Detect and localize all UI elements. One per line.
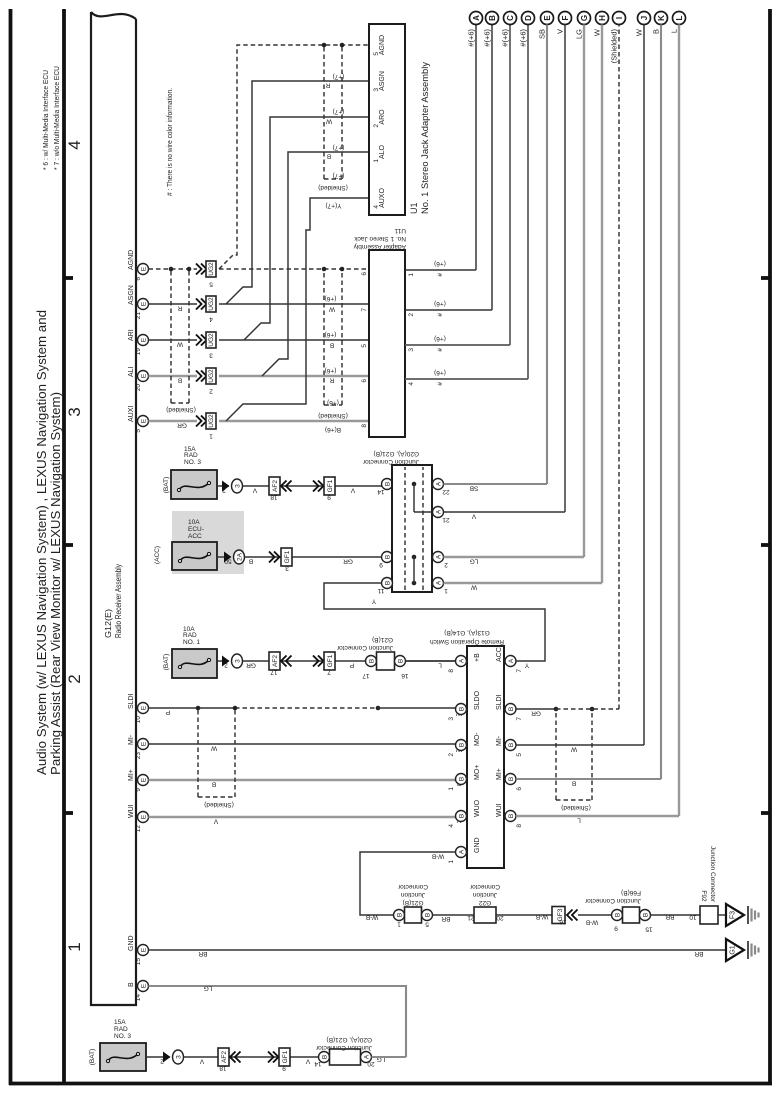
svg-text:RAD: RAD (114, 1026, 128, 1033)
svg-text:ACC: ACC (188, 533, 202, 540)
svg-text:MI+: MI+ (496, 768, 503, 780)
svg-text:(+6): (+6) (434, 300, 446, 307)
svg-text:5: 5 (373, 52, 380, 56)
svg-text:NO. 3: NO. 3 (184, 459, 201, 466)
svg-text:G21(B): G21(B) (372, 636, 393, 643)
svg-text:V: V (556, 29, 565, 34)
svg-text:14: 14 (314, 1060, 322, 1067)
svg-text:3: 3 (285, 565, 289, 572)
svg-text:F3: F3 (730, 911, 737, 919)
svg-text:17: 17 (362, 672, 370, 679)
svg-text:#(+6): #(+6) (483, 28, 492, 46)
svg-text:F92: F92 (700, 890, 707, 902)
svg-text:4: 4 (373, 205, 380, 209)
svg-text:(+7): (+7) (333, 73, 345, 80)
svg-text:B: B (615, 913, 622, 917)
svg-text:L: L (438, 662, 442, 669)
svg-text:Y: Y (524, 662, 529, 669)
svg-text:Parking Assist (Rear View Moni: Parking Assist (Rear View Monitor w/ LEX… (48, 392, 63, 775)
svg-text:16: 16 (401, 672, 409, 679)
svg-text:ARI: ARI (128, 329, 135, 341)
svg-text:1: 1 (444, 587, 448, 594)
svg-text:U1: U1 (409, 202, 419, 214)
svg-text:B: B (128, 982, 135, 987)
svg-text:4: 4 (408, 382, 415, 386)
svg-text:5: 5 (361, 344, 368, 348)
svg-text:2: 2 (408, 313, 415, 317)
svg-text:(+6): (+6) (325, 295, 337, 302)
svg-text:19: 19 (135, 348, 142, 356)
svg-text:Junction Connector: Junction Connector (709, 846, 716, 903)
svg-text:#(+6): #(+6) (467, 28, 476, 46)
svg-text:UG2: UG2 (208, 262, 215, 276)
svg-text:SLDI: SLDI (496, 694, 503, 710)
svg-text:1: 1 (65, 942, 84, 951)
svg-text:8: 8 (448, 669, 455, 673)
svg-text:1: 1 (209, 433, 213, 440)
svg-text:B: B (369, 659, 376, 663)
svg-text:G21(B): G21(B) (403, 899, 424, 906)
svg-text:H: H (598, 15, 607, 21)
svg-text:(Shielded): (Shielded) (204, 801, 234, 808)
svg-text:E: E (141, 777, 148, 782)
svg-text:E: E (141, 947, 148, 952)
svg-text:17: 17 (270, 669, 278, 676)
svg-text:B: B (249, 558, 253, 565)
svg-text:C: C (506, 15, 515, 21)
svg-text:W-B: W-B (536, 913, 549, 920)
svg-text:3: 3 (235, 659, 242, 663)
svg-text:9: 9 (614, 925, 618, 932)
svg-text:10: 10 (689, 914, 697, 921)
svg-text:A: A (472, 15, 481, 21)
svg-text:14: 14 (135, 994, 142, 1002)
svg-text:GF1: GF1 (327, 654, 334, 667)
svg-text:5: 5 (516, 753, 523, 757)
svg-text:2: 2 (444, 561, 448, 568)
svg-text:AUXO: AUXO (379, 188, 386, 208)
svg-text:+B: +B (474, 653, 481, 662)
svg-text:10A: 10A (188, 519, 200, 526)
svg-text:GR: GR (246, 662, 256, 669)
svg-text:1: 1 (373, 159, 380, 163)
svg-text:(+7): (+7) (333, 172, 345, 179)
svg-text:Junction Connector: Junction Connector (336, 644, 393, 651)
svg-text:RAD: RAD (184, 452, 198, 459)
svg-text:21: 21 (442, 516, 450, 523)
svg-text:(+6): (+6) (434, 260, 446, 267)
svg-text:6: 6 (516, 787, 523, 791)
svg-text:A: A (508, 658, 515, 663)
svg-text:Radio Receiver Assembly: Radio Receiver Assembly (113, 563, 123, 638)
svg-text:NO. 3: NO. 3 (114, 1033, 131, 1040)
svg-text:#: # (437, 273, 444, 277)
svg-text:ALI: ALI (128, 366, 135, 377)
svg-text:BR: BR (665, 913, 674, 920)
svg-text:(ACC): (ACC) (154, 546, 161, 564)
svg-text:(+6): (+6) (327, 399, 339, 406)
svg-text:7: 7 (516, 669, 523, 673)
svg-text:15: 15 (135, 958, 142, 966)
svg-text:B(+6): B(+6) (325, 426, 341, 433)
svg-text:Junction Connector: Junction Connector (362, 458, 419, 465)
svg-text:UG2: UG2 (208, 369, 215, 383)
svg-text:16: 16 (559, 918, 567, 925)
svg-text:GF1: GF1 (282, 1050, 289, 1063)
svg-text:F66(B): F66(B) (621, 889, 641, 896)
svg-text:W: W (470, 584, 477, 591)
svg-text:3: 3 (176, 1055, 183, 1059)
svg-text:E: E (141, 814, 148, 819)
svg-text:B: B (459, 707, 466, 711)
svg-text:(Shielded): (Shielded) (318, 412, 348, 419)
svg-text:No. 1 Stereo Jack: No. 1 Stereo Jack (354, 235, 406, 242)
svg-text:W: W (328, 306, 335, 313)
svg-text:U11: U11 (394, 227, 406, 234)
svg-text:R: R (329, 377, 334, 384)
svg-text:MI+: MI+ (128, 769, 135, 781)
svg-text:UG2: UG2 (208, 414, 215, 428)
svg-text:B: B (322, 1055, 329, 1059)
svg-text:#: # (437, 348, 444, 352)
svg-text:WUI: WUI (128, 804, 135, 818)
svg-text:A: A (436, 509, 443, 514)
svg-text:2: 2 (448, 753, 455, 757)
svg-text:18: 18 (270, 494, 278, 501)
svg-text:R: R (177, 305, 182, 312)
svg-text:Connector: Connector (469, 883, 500, 890)
svg-text:ACC: ACC (496, 647, 503, 662)
svg-text:(Shielded): (Shielded) (166, 406, 196, 413)
svg-text:6: 6 (135, 277, 142, 281)
svg-text:AGND: AGND (379, 35, 386, 55)
svg-text:3: 3 (65, 407, 84, 416)
svg-text:V: V (199, 1058, 204, 1065)
svg-text:(+6): (+6) (434, 369, 446, 376)
svg-text:GR: GR (177, 422, 187, 429)
svg-text:BR: BR (694, 950, 703, 957)
svg-text:MI-: MI- (128, 734, 135, 745)
svg-text:(+6): (+6) (325, 331, 337, 338)
svg-text:AF2: AF2 (272, 480, 279, 492)
svg-text:L: L (670, 29, 679, 33)
svg-text:MO-: MO- (474, 732, 481, 746)
svg-text:(Shielded): (Shielded) (318, 184, 348, 191)
svg-text:15: 15 (645, 926, 653, 933)
svg-text:4: 4 (448, 824, 455, 828)
svg-text:2A: 2A (237, 552, 244, 561)
svg-text:Junction Connector: Junction Connector (315, 1044, 372, 1051)
svg-text:A: A (436, 580, 443, 585)
svg-text:B: B (508, 707, 515, 711)
svg-text:A: A (459, 658, 466, 663)
svg-text:MI-: MI- (496, 735, 503, 746)
svg-text:R: R (325, 82, 330, 89)
svg-text:1: 1 (448, 787, 455, 791)
svg-text:7: 7 (361, 308, 368, 312)
svg-text:B: B (459, 743, 466, 747)
svg-text:GND: GND (128, 935, 135, 951)
svg-text:(Shielded): (Shielded) (561, 804, 591, 811)
svg-text:LG: LG (204, 985, 213, 992)
svg-text:23: 23 (135, 752, 142, 760)
svg-text:ASGN: ASGN (128, 285, 135, 305)
svg-text:E: E (141, 301, 148, 306)
svg-text:* 6 : w/ Multi-Media Interface: * 6 : w/ Multi-Media Interface ECU (43, 70, 50, 170)
svg-text:B: B (488, 15, 497, 21)
svg-text:#: # (437, 313, 444, 317)
svg-text:G20(A), G21(B): G20(A), G21(B) (373, 450, 419, 457)
svg-text:Remote Operation Switch: Remote Operation Switch (430, 638, 504, 645)
svg-text:W: W (570, 746, 577, 753)
svg-text:WUO: WUO (474, 799, 481, 817)
svg-text:J: J (640, 16, 649, 20)
svg-text:W: W (210, 745, 217, 752)
svg-text:# : There is no wire color inf: # : There is no wire color information. (167, 88, 174, 196)
svg-text:(BAT): (BAT) (163, 654, 170, 671)
svg-text:G12(E): G12(E) (103, 609, 113, 638)
svg-text:4: 4 (65, 140, 84, 149)
svg-text:Adapter Assembly: Adapter Assembly (353, 243, 406, 250)
svg-text:ALO: ALO (379, 144, 386, 159)
svg-text:5: 5 (425, 921, 429, 928)
svg-text:GF1: GF1 (284, 550, 291, 563)
svg-text:BR: BR (198, 950, 207, 957)
svg-text:E: E (141, 983, 148, 988)
svg-text:A: A (459, 849, 466, 854)
svg-text:SLDI: SLDI (128, 693, 135, 709)
svg-text:G1: G1 (730, 945, 737, 954)
svg-text:9: 9 (327, 494, 331, 501)
svg-text:A: A (436, 481, 443, 486)
svg-text:5: 5 (135, 429, 142, 433)
svg-text:E: E (141, 266, 148, 271)
svg-text:W-B: W-B (432, 853, 445, 860)
svg-text:ARO: ARO (379, 109, 386, 125)
svg-text:I: I (615, 17, 624, 19)
svg-text:#: # (437, 382, 444, 386)
svg-text:W: W (635, 28, 644, 36)
svg-text:B: B (652, 29, 661, 34)
svg-text:BR: BR (441, 915, 450, 922)
svg-text:No. 1 Stereo Jack Adapter Asse: No. 1 Stereo Jack Adapter Assembly (420, 61, 430, 214)
svg-text:3: 3 (448, 717, 455, 721)
svg-text:12: 12 (135, 825, 142, 833)
svg-text:(BAT): (BAT) (89, 1049, 96, 1066)
svg-text:22: 22 (442, 488, 450, 495)
svg-text:7: 7 (516, 717, 523, 721)
svg-text:LG: LG (470, 558, 479, 565)
svg-text:Connector: Connector (397, 883, 428, 890)
svg-text:9: 9 (379, 561, 383, 568)
svg-text:6: 6 (361, 379, 368, 383)
svg-text:MO+: MO+ (474, 765, 481, 780)
svg-text:UG2: UG2 (208, 333, 215, 347)
svg-text:L: L (577, 817, 581, 824)
svg-text:Y(+7): Y(+7) (325, 202, 341, 209)
svg-text:8: 8 (516, 824, 523, 828)
svg-text:9: 9 (135, 788, 142, 792)
svg-text:AF2: AF2 (221, 1051, 228, 1063)
svg-text:B: B (459, 814, 466, 818)
svg-text:3: 3 (235, 484, 242, 488)
svg-text:9: 9 (282, 1065, 286, 1072)
svg-text:(+7): (+7) (333, 108, 345, 115)
svg-text:21: 21 (135, 312, 142, 320)
svg-text:B: B (385, 555, 392, 559)
svg-text:B: B (330, 342, 334, 349)
svg-text:1: 1 (397, 921, 401, 928)
svg-text:* 7 : w/o Multi-Media Interfac: * 7 : w/o Multi-Media Interface ECU (54, 66, 61, 170)
svg-text:10: 10 (135, 716, 142, 724)
svg-text:P: P (350, 662, 354, 669)
svg-text:ASGN: ASGN (379, 71, 386, 91)
svg-text:SB: SB (470, 485, 479, 492)
svg-text:3: 3 (209, 352, 213, 359)
svg-text:Junction Connector: Junction Connector (584, 897, 641, 904)
svg-text:1: 1 (408, 273, 415, 277)
svg-text:GR: GR (531, 710, 541, 717)
svg-text:B: B (459, 777, 466, 781)
svg-text:Y: Y (371, 598, 376, 605)
svg-text:20: 20 (135, 384, 142, 392)
svg-text:V: V (252, 487, 257, 494)
svg-text:B: B (327, 153, 331, 160)
svg-text:GF1: GF1 (327, 479, 334, 492)
svg-text:SB: SB (538, 29, 547, 39)
svg-text:B: B (572, 780, 576, 787)
svg-text:G13(A), G14(B): G13(A), G14(B) (444, 629, 490, 636)
svg-text:V: V (471, 513, 476, 520)
svg-text:B: B (212, 781, 216, 788)
svg-text:NO. 1: NO. 1 (183, 639, 200, 646)
svg-text:20: 20 (367, 1060, 375, 1067)
svg-text:4: 4 (209, 316, 213, 323)
svg-text:7: 7 (327, 669, 331, 676)
svg-text:5: 5 (209, 281, 213, 288)
svg-text:3: 3 (373, 88, 380, 92)
svg-text:(+6): (+6) (434, 335, 446, 342)
svg-text:B: B (397, 913, 404, 917)
svg-text:Audio System (w/ LEXUS Navigat: Audio System (w/ LEXUS Navigation System… (34, 310, 49, 775)
svg-text:ECU-: ECU- (188, 526, 204, 533)
svg-text:LG: LG (575, 29, 584, 39)
svg-text:AUXI: AUXI (128, 406, 135, 422)
svg-text:K: K (657, 15, 666, 21)
svg-text:WUI: WUI (496, 803, 503, 817)
svg-text:B: B (508, 777, 515, 781)
svg-text:B: B (508, 743, 515, 747)
svg-text:SLDO: SLDO (474, 690, 481, 710)
svg-text:GR: GR (343, 558, 353, 565)
svg-text:G: G (580, 15, 589, 21)
svg-text:#(+6): #(+6) (501, 28, 510, 46)
svg-text:RAD: RAD (183, 632, 197, 639)
svg-text:15A: 15A (114, 1019, 126, 1026)
svg-text:P: P (166, 709, 170, 716)
svg-text:E: E (141, 741, 148, 746)
svg-text:E: E (543, 15, 552, 21)
svg-text:1: 1 (448, 860, 455, 864)
svg-text:V: V (350, 487, 355, 494)
svg-text:Junction: Junction (473, 891, 498, 898)
svg-text:2: 2 (65, 674, 84, 683)
svg-text:2: 2 (373, 124, 380, 128)
svg-text:V: V (305, 1058, 310, 1065)
svg-text:(Shielded): (Shielded) (610, 28, 619, 63)
svg-text:W-B: W-B (586, 919, 599, 926)
svg-text:UG2: UG2 (208, 297, 215, 311)
svg-text:GND: GND (474, 837, 481, 853)
svg-text:AF2: AF2 (272, 655, 279, 667)
svg-text:W: W (325, 118, 332, 125)
svg-text:L: L (675, 15, 684, 20)
svg-text:B: B (385, 482, 392, 486)
svg-text:3: 3 (408, 348, 415, 352)
svg-text:E: E (141, 337, 148, 342)
svg-text:E: E (141, 705, 148, 710)
svg-text:21: 21 (467, 914, 475, 921)
svg-text:Junction: Junction (401, 891, 426, 898)
svg-text:F: F (561, 15, 570, 20)
svg-text:6: 6 (361, 272, 368, 276)
svg-text:8: 8 (361, 424, 368, 428)
svg-text:11: 11 (377, 587, 384, 594)
svg-text:B: B (385, 581, 392, 585)
svg-text:E: E (141, 418, 148, 423)
svg-text:B: B (178, 377, 182, 384)
svg-text:B: B (398, 659, 405, 663)
svg-text:(+6): (+6) (325, 367, 337, 374)
svg-text:B: B (425, 913, 432, 917)
svg-text:V: V (213, 818, 218, 825)
svg-text:W-B: W-B (366, 914, 379, 921)
svg-text:18: 18 (219, 1065, 227, 1072)
svg-text:2: 2 (209, 388, 213, 395)
svg-text:14: 14 (377, 488, 385, 495)
svg-text:(+7): (+7) (333, 144, 345, 151)
svg-text:B: B (508, 814, 515, 818)
svg-text:B: B (643, 913, 650, 917)
svg-text:(BAT): (BAT) (163, 477, 170, 494)
svg-text:#(+6): #(+6) (519, 28, 528, 46)
svg-text:G20(A), G21(B): G20(A), G21(B) (326, 1036, 372, 1043)
svg-text:A: A (436, 554, 443, 559)
svg-text:W: W (593, 28, 602, 36)
svg-text:D: D (524, 15, 533, 21)
svg-text:AGND: AGND (128, 250, 135, 270)
svg-text:E: E (141, 373, 148, 378)
svg-text:G22: G22 (478, 899, 491, 906)
svg-text:W: W (176, 341, 183, 348)
svg-text:A: A (364, 1054, 371, 1059)
